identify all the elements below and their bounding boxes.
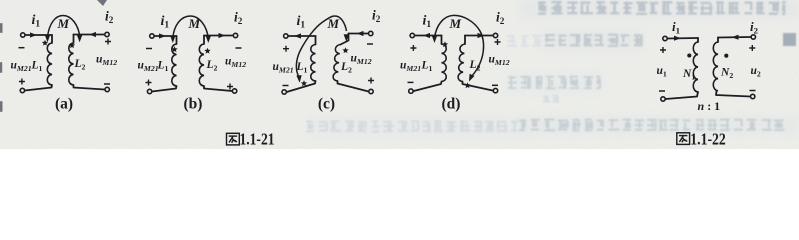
terminal top-left (b) (150, 34, 154, 38)
arc arrowhead left (d) (432, 36, 437, 43)
transformer primary winding N1 (693, 42, 698, 92)
inductor L2 (c) (333, 45, 340, 82)
polarity + right top (d) (495, 39, 501, 45)
wire L1 top lead (c) (315, 36, 317, 45)
polarity + left top (1-22) (660, 47, 666, 53)
current arrow i2 (a) (89, 32, 96, 37)
svg-text:(c): (c) (318, 96, 335, 113)
polarity - right top (b) (236, 47, 242, 49)
wire top-left (a) (25, 34, 52, 36)
wire L1 bottom lead (a) (25, 85, 52, 91)
wire top-right (b) (204, 35, 233, 37)
dot marker N1 (1-22) (687, 53, 691, 57)
wire L2 top lead (d) (464, 36, 466, 45)
polarity + right bottom (c) (368, 78, 374, 84)
svg-text:1.1-21: 1.1-21 (240, 129, 275, 148)
terminal top-left (a) (21, 33, 25, 37)
coupled-inductor circuit (b) (138, 10, 247, 113)
svg-text:(d): (d) (442, 96, 461, 113)
polarity - left top (b) (146, 48, 152, 50)
wire L1 top lead (d) (441, 36, 443, 45)
terminal bottom-left (d) (409, 89, 413, 93)
wire top-left (b) (154, 35, 176, 37)
wire top-right (1-22) (718, 36, 751, 39)
svg-text:M: M (188, 16, 201, 31)
terminal bottom-right (c) (369, 89, 373, 93)
mutual coupling arc M (a) (48, 16, 80, 38)
inductor L1 (c) (311, 45, 316, 82)
dot marker N2 (1-22) (724, 54, 728, 58)
arc arrowhead right (c) (344, 34, 349, 41)
wire N1 bottom lead (1-22) (665, 92, 698, 99)
inductor L1 (a) (47, 43, 52, 85)
wire top-left (d) (415, 35, 442, 37)
coupled-inductor circuit (c) (273, 8, 381, 113)
terminal bottom-left (b) (147, 89, 151, 93)
wire top-left (1-22) (667, 37, 698, 40)
dot marker star L2 (d) (464, 82, 470, 88)
terminal bottom-left (c) (282, 90, 286, 94)
inductor L2 (d) (458, 44, 465, 82)
wire L1 top lead (a) (51, 35, 53, 43)
svg-text:1.1-22: 1.1-22 (690, 129, 726, 148)
dot marker star L2 (b) (204, 48, 210, 54)
dot marker star L1 (a) (42, 40, 48, 46)
polarity - left top (a) (19, 47, 25, 49)
current arrow i2 (b) (219, 33, 226, 38)
polarity + left top (c) (283, 46, 289, 52)
wire L1 bottom lead (c) (287, 81, 316, 92)
wire N2 bottom lead (1-22) (716, 91, 750, 97)
terminal top-right (1-22) (751, 35, 755, 39)
svg-text:(b): (b) (184, 96, 203, 113)
polarity - right bottom (1-22) (750, 90, 756, 92)
current arrow i1 (c) (294, 33, 301, 38)
mutual coupling arc M (d) (435, 15, 484, 76)
terminal bottom-right (b) (232, 89, 236, 93)
wire L2 bottom lead (d) (463, 82, 494, 91)
mutual coupling arc M (b) (173, 16, 209, 38)
inductor L2 (b) (199, 44, 204, 86)
svg-text:M: M (327, 16, 340, 31)
polarity + right top (a) (105, 39, 111, 45)
inductor L2 (a) (69, 43, 74, 85)
svg-text:(a): (a) (55, 96, 73, 113)
current arrow i2 (d) (478, 33, 485, 38)
polarity + right top (1-22) (749, 45, 755, 51)
arc arrowhead right (d) (466, 74, 474, 83)
polarity - left bottom (c) (283, 85, 289, 87)
polarity + left bottom (b) (146, 80, 152, 86)
current arrow i1 (1-22) (674, 36, 681, 41)
terminal top-left (c) (284, 34, 288, 38)
ideal transformer circuit (fig 1.1-22) (657, 19, 761, 113)
terminal bottom-left (a) (20, 88, 24, 92)
wire N1 top lead (1-22) (697, 38, 699, 42)
polarity - right top (c) (367, 43, 373, 45)
current arrow i2 (1-22) (732, 35, 739, 40)
terminal bottom-left (1-22) (661, 97, 665, 101)
wire top-left (c) (288, 35, 315, 37)
wire L2 bottom lead (b) (204, 86, 232, 91)
dot marker star L2 (a) (69, 42, 75, 48)
wire L2 top lead (a) (73, 35, 75, 44)
wire L2 bottom lead (c) (338, 81, 369, 92)
terminal bottom-right (1-22) (751, 94, 755, 98)
arc arrowhead left (c) (296, 75, 302, 83)
wire top-right (c) (349, 33, 369, 35)
dot marker star L2 (c) (342, 47, 348, 53)
polarity + left bottom (a) (19, 79, 25, 85)
terminal top-right (d) (493, 33, 497, 37)
wire L2 bottom lead (a) (74, 85, 105, 90)
polarity + left top (d) (410, 45, 416, 51)
wire L1 top lead (b) (176, 36, 178, 44)
current arrow i1 (a) (30, 32, 37, 37)
polarity - right bottom (a) (104, 83, 110, 85)
dot marker star L1 (d) (442, 41, 448, 47)
polarity - right bottom (d) (492, 84, 498, 86)
wire top-right (d) (465, 35, 493, 37)
current arrow i2 (c) (357, 31, 364, 36)
arc arrowhead left (b) (170, 36, 175, 43)
arc arrowhead right (a) (77, 35, 82, 42)
svg-text:n : 1: n : 1 (698, 99, 721, 113)
arc arrowhead left (a) (45, 35, 50, 42)
terminal top-right (c) (369, 31, 373, 35)
wire L2 top lead (b) (203, 36, 205, 45)
terminal bottom-right (a) (105, 87, 109, 91)
current arrow i1 (d) (423, 33, 430, 38)
transformer secondary winding N2 (713, 42, 718, 91)
polarity - left bottom (1-22) (659, 90, 665, 92)
terminal bottom-right (d) (493, 88, 497, 92)
wire L2 top lead (c) (341, 34, 349, 45)
polarity + right bottom (b) (227, 84, 233, 90)
arc arrowhead right (b) (206, 36, 211, 43)
inductor L1 (b) (172, 44, 177, 86)
coupled-inductor circuit (a) (11, 9, 118, 113)
terminal top-right (a) (105, 32, 109, 36)
caption figure 1.1-22 hanzi (677, 133, 690, 145)
dot marker star L1 (b) (171, 46, 177, 52)
mutual coupling arc M (c) (296, 16, 346, 77)
wire top-right (a) (74, 34, 105, 36)
caption figure 1.1-21 hanzi (227, 133, 240, 145)
svg-text:M: M (449, 16, 462, 31)
wire L1 bottom lead (d) (413, 82, 441, 92)
wire N2 top lead (1-22) (717, 38, 719, 43)
wire L1 bottom lead (b) (152, 86, 177, 92)
terminal top-left (d) (410, 33, 414, 37)
polarity - left bottom (d) (408, 81, 414, 83)
dot marker star L1 (c) (301, 80, 307, 86)
coupled-inductor circuit (d) (400, 10, 510, 113)
current arrow i1 (b) (159, 33, 166, 38)
terminal top-left (1-22) (663, 36, 667, 40)
terminal top-right (b) (233, 33, 237, 37)
inductor L1 (d) (442, 44, 447, 82)
svg-text:M: M (57, 16, 70, 31)
